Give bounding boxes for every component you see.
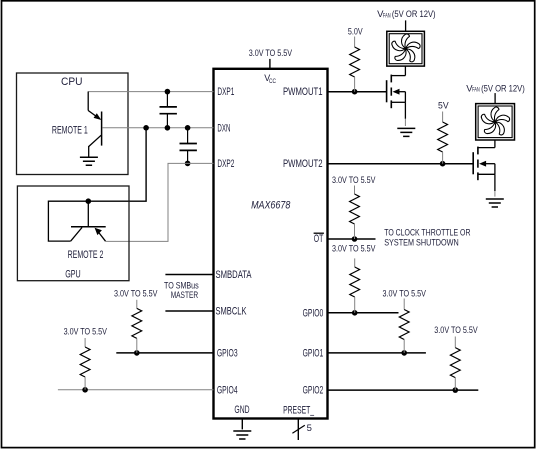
resistor R GPIO4 pullup (80, 338, 90, 390)
resistor R GPIO1 pullup (399, 299, 409, 353)
capacitor C2 (DXN-DXP2) (180, 128, 197, 164)
svg-text:MAX6678: MAX6678 (251, 199, 291, 211)
svg-text:DXP1: DXP1 (217, 86, 234, 98)
fan FAN2 (476, 104, 515, 140)
svg-text:GPIO2: GPIO2 (303, 385, 324, 397)
wire DXP1 to CPU transistor (88, 91, 214, 93)
svg-text:SMBCLK: SMBCLK (216, 306, 247, 318)
svg-text:CPU: CPU (61, 76, 83, 88)
svg-text:FAN: FAN (472, 87, 480, 94)
node dot REMOTE2 base junction (86, 198, 92, 204)
wire PRESET_ stub (297, 419, 299, 441)
resistor R GPIO0 pullup (350, 258, 360, 312)
node VFAN1 label (377, 9, 436, 20)
svg-text:MASTER: MASTER (171, 290, 198, 301)
wire GPIO2 (328, 389, 479, 391)
ground (M2 source) (486, 199, 504, 207)
ground (REMOTE 1 emitter) (80, 157, 98, 165)
node dot PWMOUT1/R (352, 89, 358, 95)
resistor R OT pullup (350, 186, 360, 240)
ground (GND pin) (233, 431, 251, 439)
capacitor C1 (DXP1-DXN) (160, 92, 177, 128)
wire GPIO0 (328, 312, 399, 314)
svg-text:5.0V: 5.0V (348, 27, 363, 38)
node dot DXN/C1 (165, 125, 171, 131)
svg-text:(5V OR 12V): (5V OR 12V) (392, 9, 436, 20)
svg-text:3.0V TO 5.5V: 3.0V TO 5.5V (383, 288, 427, 299)
svg-text:GPIO4: GPIO4 (217, 384, 238, 396)
transistor M1 N-FET (387, 75, 406, 109)
svg-text:REMOTE 2: REMOTE 2 (68, 249, 104, 261)
svg-text:3.0V TO 5.5V: 3.0V TO 5.5V (249, 48, 293, 59)
wire M1 source to ground (404, 102, 406, 119)
wire REMOTE 2 emitter loop (48, 201, 88, 241)
node dot OT/R (352, 236, 358, 242)
node dot GPIO4/R (82, 387, 88, 393)
svg-text:GPIO0: GPIO0 (303, 307, 324, 319)
node dot PWMOUT2/R (440, 161, 446, 167)
node dot DXN/C2 (185, 125, 191, 131)
node dot GPIO2/R (453, 387, 459, 393)
svg-text:DXP2: DXP2 (217, 158, 234, 170)
svg-text:CC: CC (269, 78, 276, 85)
svg-text:3.0V TO 5.5V: 3.0V TO 5.5V (332, 244, 376, 255)
svg-text:DXN: DXN (217, 122, 230, 134)
node dot GPIO0/R (352, 310, 358, 316)
svg-text:3.0V TO 5.5V: 3.0V TO 5.5V (64, 327, 108, 338)
node dot DXP1/C1 (165, 89, 171, 95)
GPU box (17, 186, 129, 281)
resistor R GPIO2 pullup (450, 337, 460, 391)
wire DXN to REMOTE 2 base (88, 128, 146, 201)
node VFAN2 label (466, 83, 525, 94)
CPU box (17, 73, 129, 175)
wire GPIO3 (116, 352, 213, 354)
fan FAN1 (387, 31, 425, 66)
wire PWMOUT2 (328, 163, 474, 165)
svg-text:(5V OR 12V): (5V OR 12V) (481, 83, 525, 94)
bus slash PRESET_ (292, 425, 304, 433)
svg-text:SMBDATA: SMBDATA (216, 269, 252, 281)
wire M1 drain to FAN1 (404, 66, 406, 76)
node dot GPIO3/R (134, 350, 140, 356)
transistor Q1 REMOTE 1 (88, 92, 101, 158)
node dot GPIO1/R (401, 350, 407, 356)
resistor R 5.0V pullup (350, 37, 360, 92)
svg-text:PWMOUT2: PWMOUT2 (283, 158, 323, 170)
wire M2 drain to FAN2 (494, 140, 496, 148)
wire VCC supply (269, 59, 271, 69)
wire VFAN1 stub (405, 20, 407, 31)
wire GND stub (241, 419, 243, 430)
wire DXP2 to GPU transistor (106, 163, 214, 241)
node dot DXP2/C2 (185, 161, 191, 167)
svg-text:PRESET_: PRESET_ (283, 405, 315, 417)
node dot DXN branch (143, 125, 149, 131)
svg-text:REMOTE 1: REMOTE 1 (52, 125, 88, 137)
op-amp U1 MAX6678 IC body (214, 69, 328, 419)
wire VFAN2 stub (494, 93, 496, 104)
transistor Q2 REMOTE 2 (71, 201, 106, 241)
ground (M1 source) (397, 128, 415, 136)
svg-text:3.0V TO 5.5V: 3.0V TO 5.5V (332, 175, 376, 186)
svg-text:OT: OT (314, 233, 324, 245)
wire M2 source to ground (494, 174, 496, 191)
resistor R GPIO3 pullup (132, 300, 142, 353)
wire GPIO4 (58, 389, 214, 391)
svg-text:PWMOUT1: PWMOUT1 (283, 86, 323, 98)
wire DXN from Q1 base (102, 127, 213, 129)
wire SMBCLK stub (165, 310, 213, 312)
svg-text:GPIO1: GPIO1 (303, 347, 324, 359)
wire OT (328, 238, 376, 240)
svg-text:FAN: FAN (383, 12, 391, 19)
svg-text:5V: 5V (438, 100, 449, 111)
wire PWMOUT1 (328, 91, 387, 93)
transistor M2 N-FET (473, 147, 495, 181)
svg-text:GPIO3: GPIO3 (217, 347, 238, 359)
svg-text:3.0V TO 5.5V: 3.0V TO 5.5V (114, 288, 158, 299)
svg-text:GND: GND (234, 404, 249, 416)
wire SMBDATA stub (165, 274, 213, 276)
svg-text:5: 5 (307, 423, 312, 434)
svg-text:SYSTEM SHUTDOWN: SYSTEM SHUTDOWN (384, 238, 459, 249)
wire GPIO1 (328, 352, 426, 354)
svg-text:GPU: GPU (65, 268, 81, 280)
resistor R 5V pullup (438, 112, 448, 164)
svg-text:3.0V TO 5.5V: 3.0V TO 5.5V (434, 325, 478, 336)
